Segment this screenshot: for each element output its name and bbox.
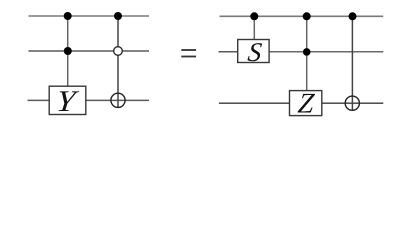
- equals sign: [181, 49, 196, 57]
- wire right q2 segment a: [219, 102, 290, 104]
- control dot q0 col3 right: [349, 12, 357, 20]
- gate Z box: [290, 89, 322, 120]
- control dot q0 col1 left: [64, 12, 72, 20]
- wire vertical control line column3 right: [351, 16, 353, 110]
- wire left q1: [29, 50, 150, 52]
- wire left q2 segment b: [86, 99, 149, 101]
- open control q1 col2 left: [114, 47, 123, 56]
- wire vertical control line column1 left: [67, 16, 69, 86]
- gate S box: [238, 37, 269, 67]
- wire vertical control line column2 left: [117, 16, 119, 107]
- control dot q1 col2 right: [303, 48, 311, 56]
- gate Y box: [49, 84, 86, 118]
- control dot q1 col1 left: [64, 47, 72, 55]
- wire right q2 segment b: [322, 102, 383, 104]
- wire vertical control line column2 right: [306, 16, 308, 90]
- control dot q0 col1 right: [250, 12, 258, 20]
- control dot q0 col2 left: [114, 12, 122, 20]
- cnot target oplus right: [345, 96, 359, 110]
- cnot target oplus left: [111, 93, 125, 107]
- wire vertical control line column1 right: [253, 16, 255, 39]
- wire right q0: [220, 15, 384, 17]
- wire right q1 segment b: [269, 51, 383, 53]
- wire left q0: [29, 15, 150, 17]
- wire left q2 segment a: [28, 99, 50, 101]
- control dot q0 col2 right: [303, 12, 311, 20]
- wire right q1 segment a: [219, 51, 238, 53]
